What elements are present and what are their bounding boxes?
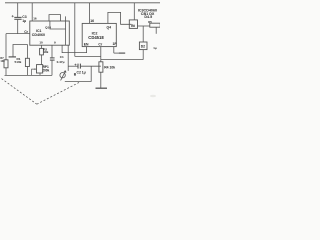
svg-text:Q14: Q14 (45, 25, 51, 29)
svg-text:10k: 10k (0, 59, 5, 63)
svg-text:510k: 510k (15, 60, 22, 64)
svg-text:16: 16 (33, 17, 37, 21)
svg-text:D2: D2 (141, 45, 145, 49)
svg-text:R5: R5 (148, 20, 152, 24)
svg-text:1μ: 1μ (153, 46, 157, 50)
svg-text:10k: 10k (43, 50, 48, 54)
svg-text:10: 10 (39, 41, 43, 45)
svg-text:EN: EN (84, 42, 89, 46)
svg-text:R4 10k: R4 10k (104, 65, 115, 69)
svg-text:D4.5: D4.5 (144, 15, 152, 19)
svg-text:Cr: Cr (98, 42, 102, 46)
svg-text:16: 16 (90, 19, 94, 23)
svg-text:Cr: Cr (24, 30, 28, 34)
svg-text:1P: 1P (113, 42, 118, 46)
svg-text:CD4060: CD4060 (32, 33, 45, 37)
svg-text:200k: 200k (42, 68, 49, 72)
svg-text:C2 1μ: C2 1μ (77, 71, 86, 75)
svg-text:C1: C1 (60, 55, 64, 59)
svg-text:Q4: Q4 (107, 26, 112, 30)
svg-text:0.47μ: 0.47μ (57, 60, 65, 64)
svg-text:CD4518: CD4518 (88, 35, 104, 40)
svg-text:1μ: 1μ (22, 19, 26, 23)
